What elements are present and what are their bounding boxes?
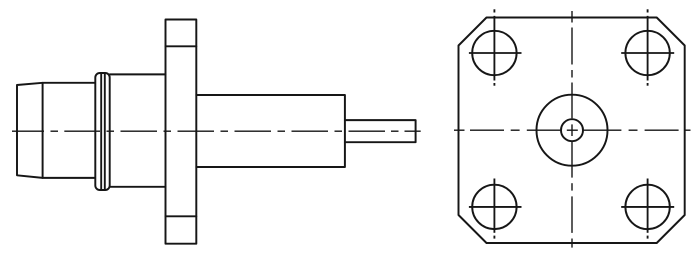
hole top-right xyxy=(625,31,669,75)
pin xyxy=(345,120,416,142)
crosshair bottom-right xyxy=(621,179,674,239)
hole top-left xyxy=(472,31,516,75)
nut xyxy=(17,83,95,178)
hole bottom-left xyxy=(472,185,516,229)
horizontal centerline right view xyxy=(454,129,691,131)
central outer circle xyxy=(537,95,608,166)
barrel xyxy=(196,95,345,167)
flange (side view) xyxy=(166,20,197,244)
crosshair top-left xyxy=(469,9,522,85)
body between ring and flange xyxy=(110,74,166,186)
centerline left view xyxy=(12,130,421,132)
crosshair top-right xyxy=(621,9,674,85)
gasket ring xyxy=(95,73,109,190)
flange octagon front view xyxy=(459,18,685,244)
crosshair bottom-left xyxy=(469,179,522,239)
hole bottom-right xyxy=(625,185,669,229)
central inner circle xyxy=(561,119,583,141)
vertical centerline right view xyxy=(571,11,573,248)
